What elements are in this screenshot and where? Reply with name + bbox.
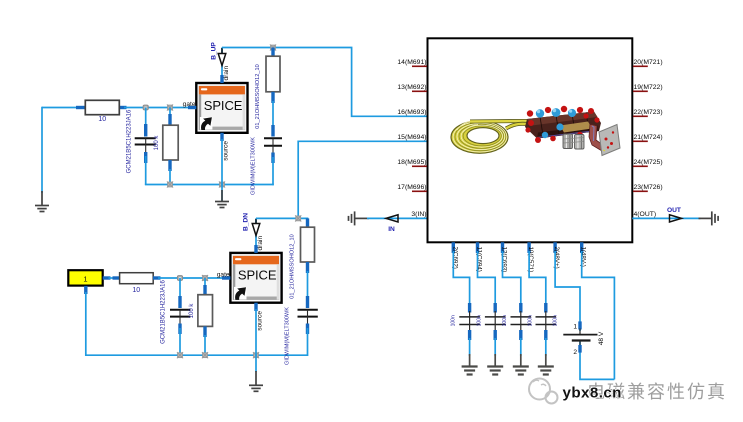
pin 14(M691) <box>397 59 426 66</box>
left pin labels <box>397 59 426 218</box>
svg-text:100n: 100n <box>528 315 534 326</box>
pin 17(M696) <box>397 184 426 191</box>
node junction <box>202 275 208 281</box>
svg-text:drain: drain <box>257 236 264 251</box>
wire <box>158 277 224 279</box>
logo circle <box>529 379 558 404</box>
svg-text:B_UP: B_UP <box>211 42 218 60</box>
capacitor C5 <box>451 303 483 356</box>
grey plate <box>599 125 620 156</box>
node junction <box>270 44 276 50</box>
ground <box>462 354 478 375</box>
port IN with ground <box>349 211 428 233</box>
node junction <box>143 105 148 110</box>
svg-text:1: 1 <box>573 323 577 330</box>
pin 10(C571) <box>527 242 534 272</box>
svg-text:100 k: 100 k <box>154 135 160 151</box>
svg-text:1: 1 <box>83 275 87 284</box>
pin 20(M721) <box>633 59 663 66</box>
svg-text:GCM21B5C1H223JA16: GCM21B5C1H223JA16 <box>127 109 133 173</box>
svg-text:2(48V+): 2(48V+) <box>553 247 560 269</box>
ground <box>35 191 49 212</box>
svg-text:48 V: 48 V <box>598 331 605 345</box>
svg-text:100 k: 100 k <box>189 303 195 319</box>
ground <box>513 354 529 375</box>
ground <box>215 185 229 208</box>
wire pin3 to C7 <box>503 251 521 305</box>
wire <box>109 277 117 279</box>
component U3 cable model block <box>428 38 633 242</box>
wire bottom rail <box>145 184 274 186</box>
svg-text:12(C693): 12(C693) <box>501 247 508 273</box>
wire jogs <box>453 251 614 379</box>
resistor R3 <box>266 48 280 128</box>
svg-text:IN: IN <box>388 226 395 233</box>
source V1 box <box>68 270 110 294</box>
capacitor C6 <box>485 303 508 356</box>
ground <box>538 354 554 375</box>
wire pin4 to C8 <box>529 251 546 305</box>
resistor R2 100k <box>154 108 178 186</box>
red bracket to plate <box>589 124 603 151</box>
svg-text:24(M725): 24(M725) <box>634 159 663 166</box>
pin 16(M693) <box>397 109 426 116</box>
svg-text:10(C571): 10(C571) <box>527 247 534 273</box>
pin 23(M726) <box>633 184 663 191</box>
port B_DN arrow <box>243 213 260 236</box>
pin 15(M694) <box>397 134 426 141</box>
svg-text:20(M721): 20(M721) <box>634 59 663 66</box>
node junction <box>253 352 259 358</box>
resistor R4 10 <box>113 273 161 294</box>
pin 24(M725) <box>633 159 663 166</box>
cable photo drawing <box>451 106 620 156</box>
port B_UP arrow <box>211 42 226 66</box>
capacitor C1 GCM21B5C1H223JA16 <box>127 108 156 186</box>
resistor R1 10 <box>76 100 127 123</box>
svg-text:15(M694): 15(M694) <box>397 134 426 141</box>
blue spheres <box>536 108 576 138</box>
pin label gate <box>183 101 197 108</box>
node junction <box>295 215 301 221</box>
svg-text:01_21OHMSSOHO12_10: 01_21OHMSSOHO12_10 <box>255 64 261 128</box>
pin 2(C692) <box>451 242 458 269</box>
bottom pin stubs and rotated labels <box>451 242 586 272</box>
pin 13(M692) <box>397 84 426 91</box>
capacitor C7 <box>511 303 534 356</box>
svg-text:21(M724): 21(M724) <box>634 134 663 141</box>
svg-text:ybx8.cn: ybx8.cn <box>563 385 622 402</box>
svg-text:GCM21B5C1H223JA16: GCM21B5C1H223JA16 <box>161 279 167 343</box>
wire bottom rail <box>85 354 308 356</box>
svg-text:gate: gate <box>217 271 230 278</box>
svg-text:B_DN: B_DN <box>243 213 250 231</box>
node junction <box>219 181 225 187</box>
pin 2(48V+) <box>553 242 560 268</box>
pin 21(M724) <box>633 134 663 141</box>
svg-text:01_21OHMSSOHO12_10: 01_21OHMSSOHO12_10 <box>290 234 296 298</box>
svg-text:10: 10 <box>132 287 140 294</box>
pin source wire <box>256 303 264 356</box>
svg-text:22(M723): 22(M723) <box>634 109 663 116</box>
svg-text:OUT: OUT <box>667 207 681 214</box>
pin 12(C693) <box>501 242 508 272</box>
wire pin5 to battery <box>555 251 580 331</box>
svg-text:4(OUT): 4(OUT) <box>634 211 657 218</box>
resistor R6 <box>301 218 315 298</box>
svg-text:source: source <box>257 311 264 331</box>
wire <box>41 107 43 193</box>
wire <box>298 141 427 218</box>
svg-text:11(C694): 11(C694) <box>476 247 483 272</box>
node junction <box>177 352 183 358</box>
ground <box>249 355 263 391</box>
node junction <box>177 276 182 281</box>
pin label gate <box>217 271 231 278</box>
wire pin1 to C5 <box>453 251 469 305</box>
wire pin2 to C6 <box>478 251 496 305</box>
pin 1(48V-) <box>580 242 587 266</box>
pin 18(M695) <box>397 159 426 166</box>
op-amp U2 SPICE block <box>230 253 281 303</box>
node junction <box>167 104 173 110</box>
wire battery neg <box>580 342 614 380</box>
svg-text:gate: gate <box>183 101 196 108</box>
right pin labels <box>633 59 663 218</box>
svg-text:100n: 100n <box>451 315 457 326</box>
svg-text:14(M691): 14(M691) <box>397 59 426 66</box>
pin drain wire <box>256 218 264 253</box>
svg-text:1(48V-): 1(48V-) <box>580 247 587 267</box>
wire drain/net to pin15 <box>256 218 308 228</box>
svg-text:18(M695): 18(M695) <box>397 159 426 166</box>
wire pin6 down <box>582 251 615 379</box>
red blobs <box>525 106 599 143</box>
svg-text:100n: 100n <box>553 315 559 326</box>
port OUT with ground <box>632 207 718 225</box>
svg-text:GIDWIM(M)ELT300WK: GIDWIM(M)ELT300WK <box>251 137 257 195</box>
pin 22(M723) <box>633 109 663 116</box>
wire source box down <box>85 292 87 356</box>
grey cylinders <box>563 134 584 149</box>
capacitor C4 <box>298 296 318 356</box>
pin 3(IN) <box>411 211 426 218</box>
svg-text:100n: 100n <box>476 315 482 326</box>
capacitor C2 <box>264 125 282 185</box>
capacitor C8 <box>536 303 559 356</box>
svg-text:3(IN): 3(IN) <box>411 211 426 218</box>
svg-text:drain: drain <box>223 66 230 81</box>
pin 11(C694) <box>476 242 483 272</box>
pin drain wire <box>222 48 230 84</box>
svg-text:16(M693): 16(M693) <box>397 109 426 116</box>
svg-text:2: 2 <box>573 349 577 356</box>
node junction <box>167 181 173 187</box>
svg-text:23(M726): 23(M726) <box>634 184 663 191</box>
wire drain to pin16 <box>222 48 428 117</box>
svg-text:10: 10 <box>98 116 106 123</box>
capacitor C3 GCM21B5C1H223JA16 <box>161 278 191 356</box>
svg-text:13(M692): 13(M692) <box>397 84 426 91</box>
op-amp U1 SPICE block <box>196 83 247 133</box>
connector body <box>525 112 601 139</box>
coil loops <box>451 120 529 153</box>
svg-text:GIDWIM(M)ELT300WK: GIDWIM(M)ELT300WK <box>285 307 291 365</box>
pin source wire <box>222 133 230 185</box>
resistor R5 100k <box>189 278 213 356</box>
svg-text:100n: 100n <box>502 315 508 326</box>
ground <box>487 354 503 375</box>
wire <box>124 107 190 109</box>
svg-text:19(M722): 19(M722) <box>634 84 663 91</box>
pin 19(M722) <box>633 84 663 91</box>
battery B1 48V <box>563 321 605 355</box>
svg-text:2(C692): 2(C692) <box>451 247 458 269</box>
svg-text:source: source <box>223 141 230 161</box>
svg-text:17(M696): 17(M696) <box>397 184 426 191</box>
pin 4(OUT) <box>634 211 657 218</box>
wire <box>42 107 79 109</box>
node junction <box>202 352 208 358</box>
